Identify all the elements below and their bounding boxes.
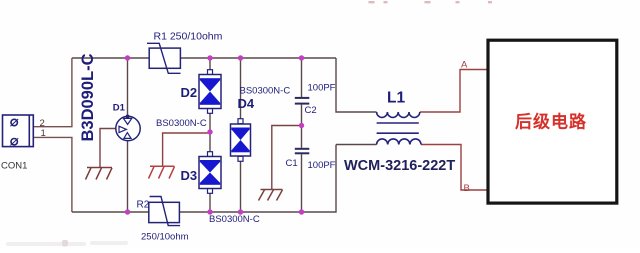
wire C1 bottom stub — [301, 154, 303, 212]
svg-text:WCM-3216-222T: WCM-3216-222T — [344, 158, 455, 174]
connector CON1 — [3, 115, 34, 147]
node C1-C2 midpoint — [299, 123, 304, 128]
svg-text:B: B — [464, 183, 470, 194]
wire pin2 to top rail — [34, 58, 72, 127]
node D4 top — [238, 55, 243, 60]
svg-text:后级电路: 后级电路 — [515, 112, 587, 132]
svg-text:R1 250/10ohm: R1 250/10ohm — [154, 31, 223, 43]
ground Y-cap branch — [259, 190, 283, 201]
node D1 top — [125, 55, 130, 60]
wire D3 bottom pin — [209, 192, 211, 212]
svg-text:R2: R2 — [137, 200, 150, 211]
wire bottom rail right segment — [179, 145, 336, 213]
capacitor C2 — [295, 97, 310, 105]
wire D1 top pin — [127, 58, 129, 117]
node C1 bottom — [299, 209, 304, 214]
wire L1 lower lead — [336, 144, 377, 146]
svg-text:B3D090L-C: B3D090L-C — [79, 53, 97, 141]
wire top rail left segment — [72, 57, 149, 59]
svg-text:250/10ohm: 250/10ohm — [141, 232, 189, 243]
wire D4 top pin — [240, 58, 242, 119]
wire pin1 to bottom rail — [34, 137, 72, 212]
gas discharge tube D1 — [116, 115, 140, 141]
wire L1 output to node A — [420, 70, 487, 113]
ground D1 branch — [86, 168, 113, 180]
cropped text remnants top — [369, 1, 493, 3]
wire bottom rail left segment — [72, 211, 149, 213]
node D2 top — [207, 55, 212, 60]
wire top rail right segment — [181, 57, 337, 59]
varistor R1 — [147, 43, 181, 73]
wire D2 top pin — [209, 58, 211, 70]
cropped text remnants bottom left — [6, 240, 128, 247]
next stage block — [488, 40, 617, 203]
svg-text:C2: C2 — [305, 105, 317, 116]
junction dots — [125, 55, 304, 214]
wire midpoint ground branch — [163, 133, 210, 166]
svg-text:A: A — [461, 60, 468, 71]
svg-text:100PF: 100PF — [308, 83, 336, 94]
wire D4 bottom pin — [240, 161, 242, 212]
varistor R2 — [149, 197, 180, 226]
ground midpoint branch — [149, 166, 175, 178]
node D3 bottom — [207, 209, 212, 214]
svg-text:D2: D2 — [181, 85, 198, 100]
svg-text:BS0300N-C: BS0300N-C — [156, 118, 207, 129]
wire Y-cap ground branch — [272, 126, 302, 190]
TVS diode D4 — [231, 119, 251, 162]
svg-text:D3: D3 — [181, 168, 198, 183]
svg-text:BS0300N-C: BS0300N-C — [240, 86, 291, 97]
svg-text:D4: D4 — [238, 96, 255, 111]
wire D1 bottom pin — [127, 140, 129, 212]
L1 core bars — [377, 123, 419, 133]
svg-text:100PF: 100PF — [308, 160, 336, 171]
node D1 bottom — [125, 209, 130, 214]
TVS diode D3 — [199, 152, 221, 194]
node D4 bottom — [238, 209, 243, 214]
wire C2 top stub — [301, 58, 303, 97]
node D2-D3 midpoint — [207, 129, 212, 134]
wire L1 output to node B — [421, 145, 487, 191]
node C2 top — [299, 55, 304, 60]
svg-text:C1: C1 — [286, 158, 298, 169]
svg-text:D1: D1 — [113, 103, 126, 114]
wire C2-C1 midpoint — [301, 105, 303, 148]
TVS diode D2 — [199, 70, 221, 114]
svg-text:BS0300N-C: BS0300N-C — [209, 214, 260, 225]
wire D1 ground branch — [100, 129, 116, 168]
svg-text:1: 1 — [41, 128, 46, 139]
common mode choke L1 lower winding — [377, 139, 421, 145]
svg-text:L1: L1 — [387, 90, 405, 107]
common mode choke L1 upper winding — [377, 112, 420, 117]
capacitor C1 — [295, 148, 310, 155]
svg-text:CON1: CON1 — [1, 161, 27, 172]
wire top rail to L1 upper lead — [336, 58, 377, 112]
wire D2-D3 midpoint — [209, 113, 211, 152]
